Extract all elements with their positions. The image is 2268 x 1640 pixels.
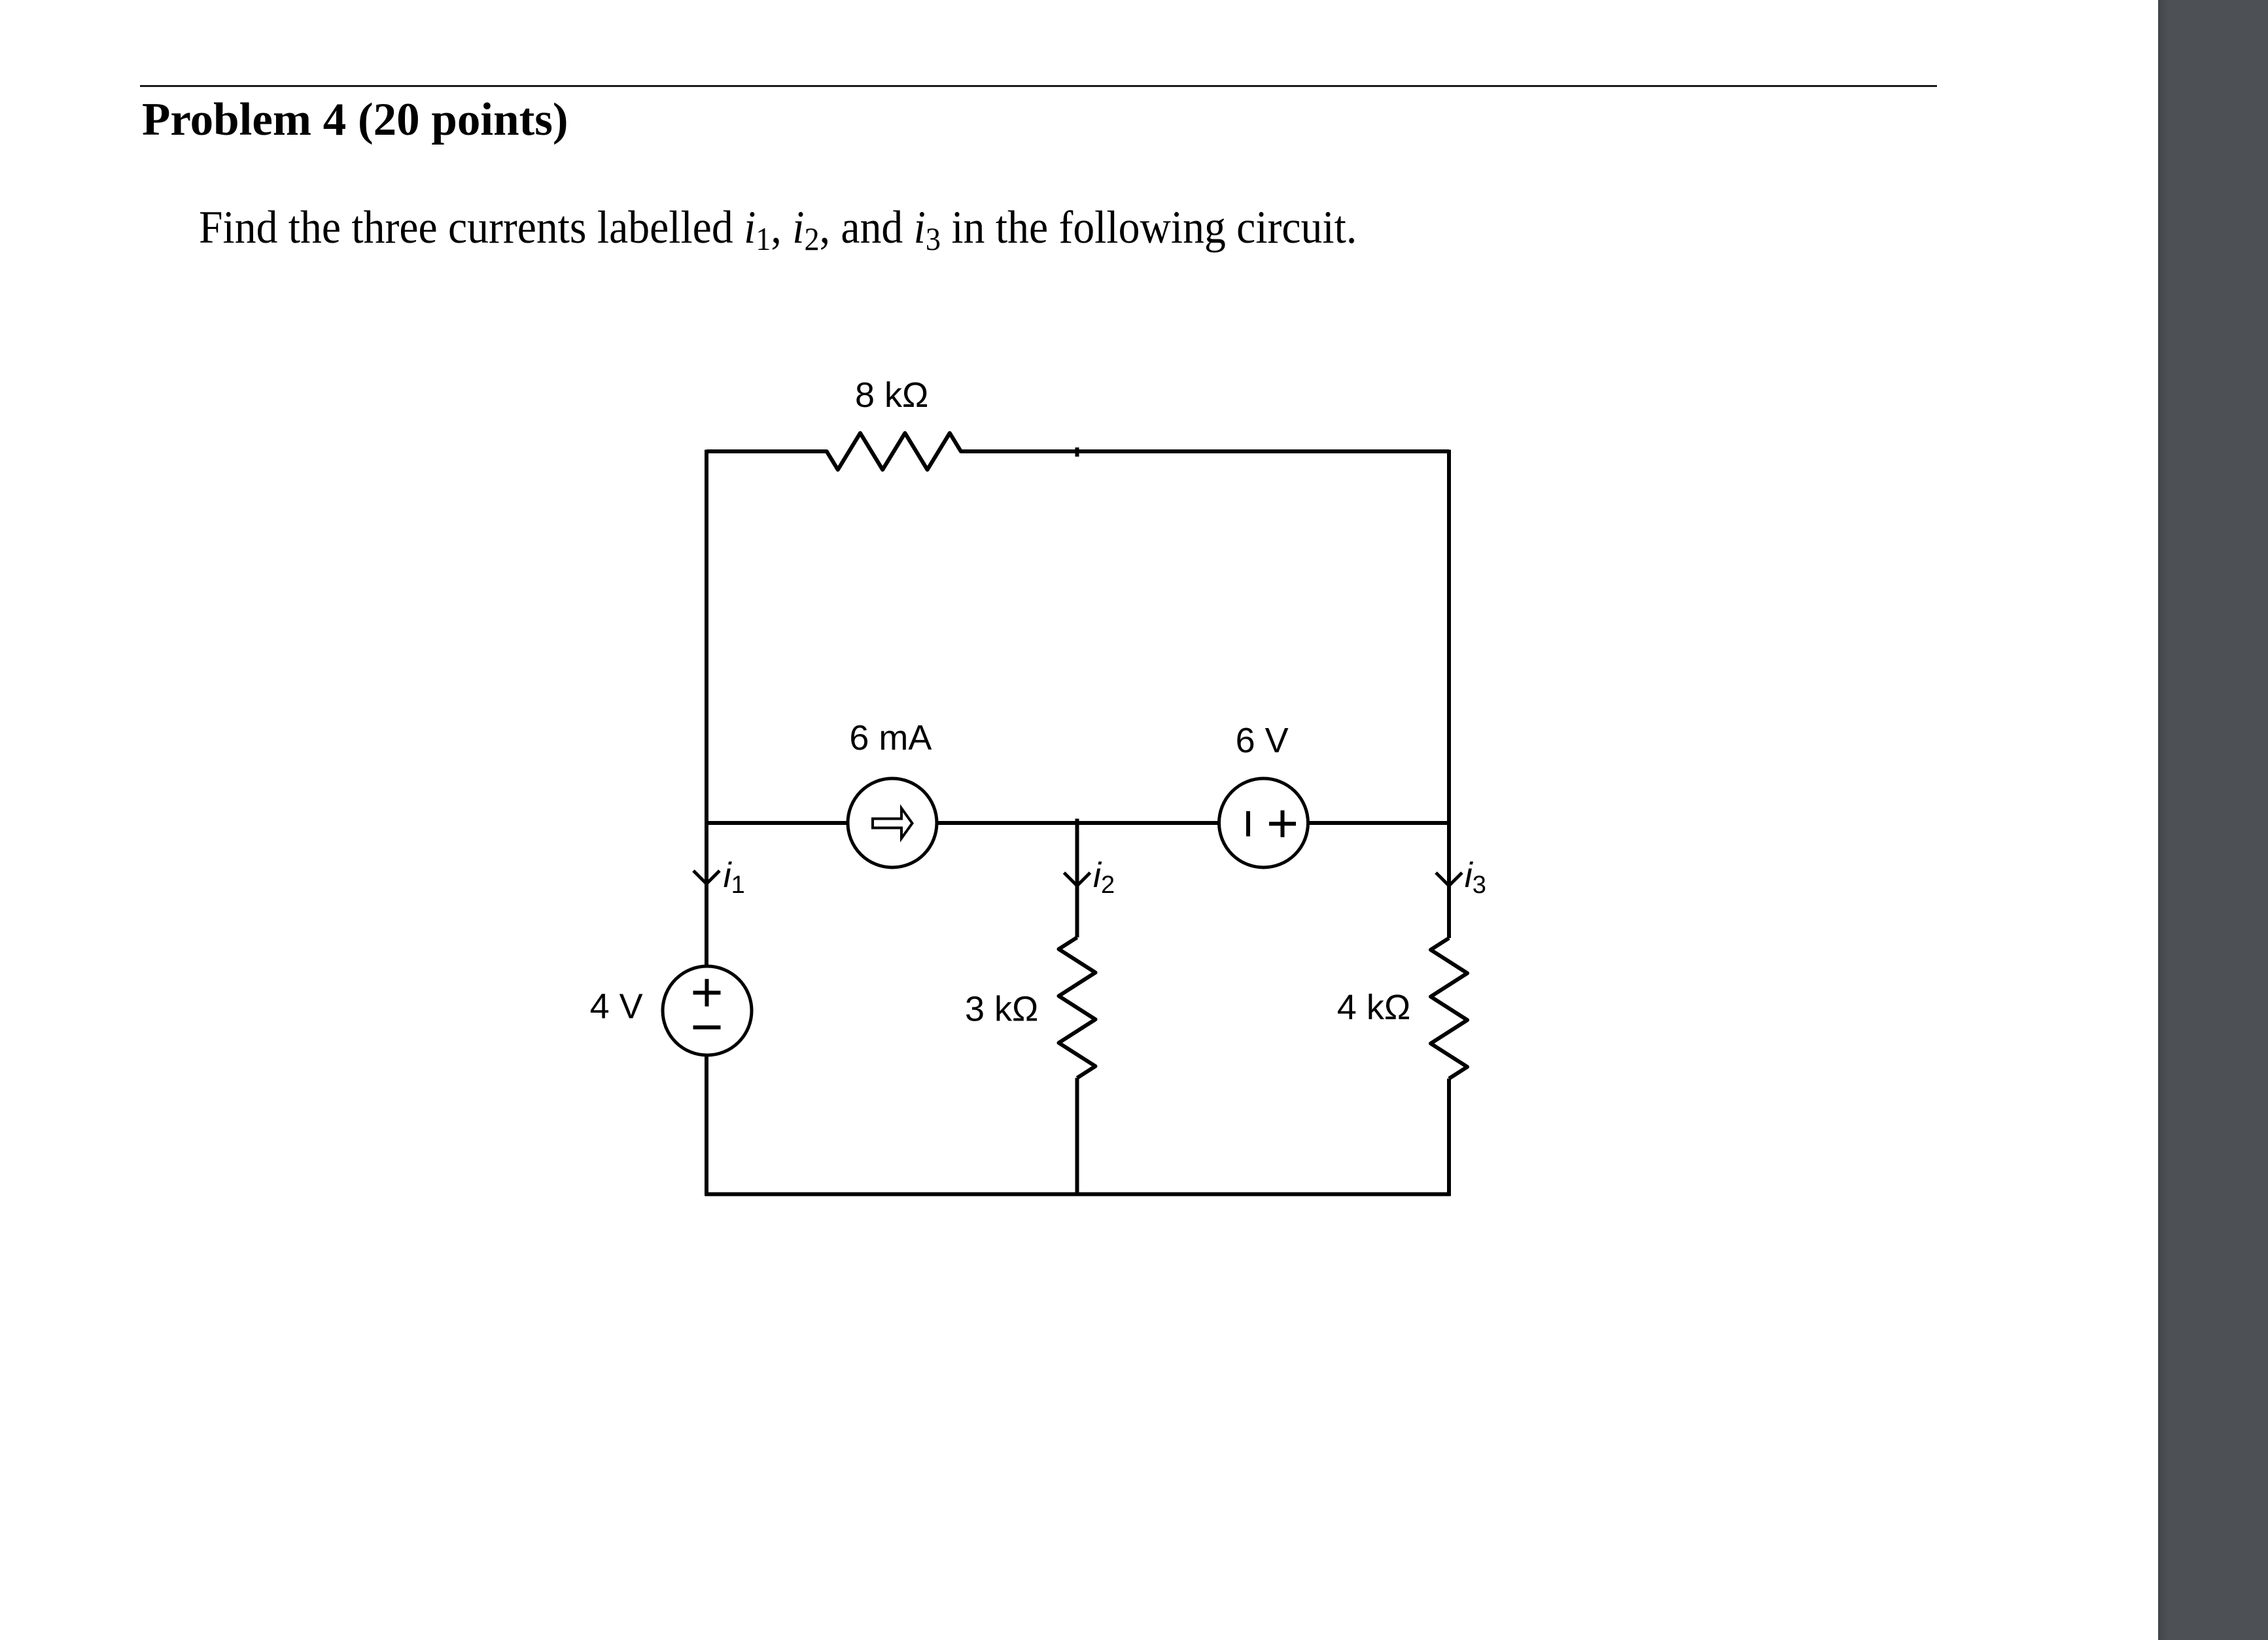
svg-text:3 kΩ: 3 kΩ [965,990,1038,1029]
svg-text:8 kΩ: 8 kΩ [855,375,928,415]
svg-text:i3: i3 [1465,856,1486,899]
svg-text:6 V: 6 V [1236,721,1289,760]
svg-text:4 kΩ: 4 kΩ [1337,988,1410,1027]
svg-text:4 V: 4 V [590,987,643,1026]
svg-text:i2: i2 [1093,856,1115,899]
svg-text:i1: i1 [724,856,745,899]
svg-text:6 mA: 6 mA [849,718,932,758]
